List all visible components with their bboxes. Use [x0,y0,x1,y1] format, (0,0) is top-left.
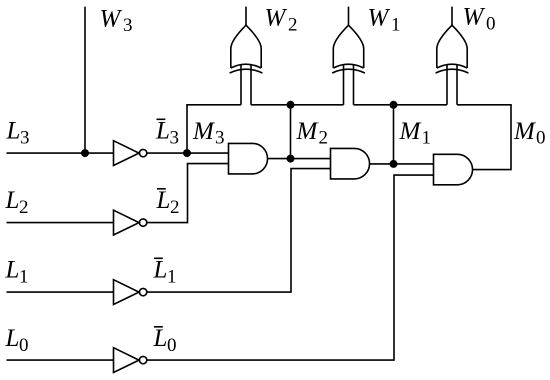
wire L2bar route to AND1 lower input [147,164,228,223]
svg-text:M: M [513,118,536,145]
wire L3bar from inverter to AND1 [147,152,228,154]
svg-text:L: L [156,187,171,214]
and-gate A1 (M1) [434,154,473,185]
wire W3 vertical [84,7,86,154]
label L1 [5,257,29,288]
svg-text:W: W [463,4,486,31]
svg-text:W: W [265,5,288,32]
svg-text:L: L [5,325,20,352]
junction dot M2 node on AND1 output [287,155,295,163]
label L2 [5,187,29,218]
label W2 [265,5,298,36]
wire L1bar route to AND2 lower input [147,169,330,293]
label W0 [463,4,496,35]
svg-text:L: L [5,187,20,214]
svg-text:1: 1 [19,266,29,287]
wire M2 bus segment [251,104,344,106]
wire L0 input [7,359,114,361]
xor gate X0 (W0) [436,7,469,105]
svg-text:0: 0 [486,13,496,34]
svg-text:L: L [153,325,168,352]
junction dot L3bar node [183,149,191,157]
label W1 [368,5,401,36]
and-gate A2 (M2) [331,148,370,179]
wire L3 input [7,152,114,154]
inverter U2 [114,210,147,235]
svg-text:0: 0 [536,128,546,149]
label M2 [296,118,329,149]
label L3 [6,118,30,149]
label M3 [192,118,225,149]
xor gate X2 (W2) [230,7,263,105]
label L3bar [155,118,179,149]
svg-text:M: M [296,118,319,145]
inverter U1 [114,280,147,305]
svg-text:0: 0 [167,335,177,356]
label L0 [5,325,29,356]
svg-text:L: L [6,118,21,145]
label M1 [399,118,432,149]
label M0 [513,118,546,149]
svg-text:2: 2 [19,197,29,218]
svg-text:M: M [399,118,422,145]
wire M1 bus segment [354,104,448,106]
wire M2 vertical [290,105,292,159]
svg-text:W: W [368,5,391,32]
svg-text:L: L [5,257,20,284]
label L2bar [156,187,180,218]
svg-text:W: W [100,5,123,32]
svg-text:0: 0 [19,335,29,356]
xor gate X1 (W1) [332,7,365,105]
label L0bar [153,325,177,356]
svg-text:3: 3 [123,15,133,36]
wire M1 vertical [393,105,395,164]
svg-text:2: 2 [319,128,329,149]
inverter U3 [114,141,147,166]
wire L0bar route to AND3 lower input [147,175,433,360]
svg-text:3: 3 [20,127,30,148]
wire M3 vertical bus to L3bar node [186,105,188,153]
svg-text:L: L [153,257,168,284]
wire M0 route from bus to AND3 output [457,105,511,170]
svg-text:1: 1 [167,266,177,287]
wire L2 input [7,222,114,224]
label L1bar [153,257,177,288]
svg-text:L: L [155,118,170,145]
label W3 [100,5,133,36]
wire AND2 output to AND3 top input [370,163,434,165]
wire M3 bus segment [186,104,241,106]
svg-text:1: 1 [422,128,432,149]
junction dot M1 on bus [390,101,398,109]
svg-text:3: 3 [215,128,225,149]
svg-text:M: M [192,118,215,145]
svg-text:2: 2 [170,197,180,218]
wire L1 input [7,291,114,293]
svg-text:2: 2 [288,14,298,35]
svg-text:1: 1 [391,14,401,35]
junction dot W3/L3 [81,149,89,157]
inverter U0 [114,348,147,373]
wire AND1 output to AND2 top input [268,158,331,160]
and-gate A3 (M3) [229,143,268,174]
svg-text:3: 3 [170,127,180,148]
junction dot M1 node on AND2 output [390,160,398,168]
junction dot M2 on bus [287,101,295,109]
